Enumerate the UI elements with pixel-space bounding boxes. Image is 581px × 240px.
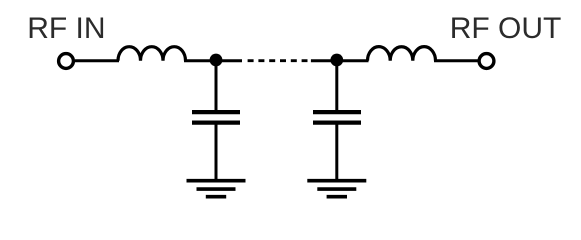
svg-text:RF IN: RF IN [27, 12, 105, 45]
capacitor C1 [192, 112, 240, 123]
wire from node 2 to inductor L2 [337, 59, 369, 62]
terminal RF OUT (open circle) [479, 54, 494, 69]
capacitor C2 [313, 112, 361, 123]
wire from inductor L1 to node 1 [184, 59, 242, 62]
wire node 1 to capacitor C1 [215, 60, 218, 111]
wire dotted continuation between node 1 and node 2 [248, 59, 308, 62]
wire node 2 to capacitor C2 [335, 60, 338, 111]
wire from inductor L2 to RF OUT terminal [434, 59, 478, 62]
ground (right) [307, 181, 366, 197]
wire from RF IN terminal to inductor L1 [75, 59, 119, 62]
inductor L1 [118, 47, 186, 61]
wire capacitor C1 to ground [215, 123, 218, 181]
inductor L2 [368, 47, 436, 61]
node 2 (junction dot) [330, 54, 343, 67]
node 1 (junction dot) [210, 54, 223, 67]
wire capacitor C2 to ground [335, 123, 338, 181]
wire from dotted section to node 2 [311, 59, 338, 62]
svg-text:RF OUT: RF OUT [450, 12, 562, 45]
ground (left) [187, 181, 246, 197]
terminal RF IN (open circle) [59, 54, 74, 69]
